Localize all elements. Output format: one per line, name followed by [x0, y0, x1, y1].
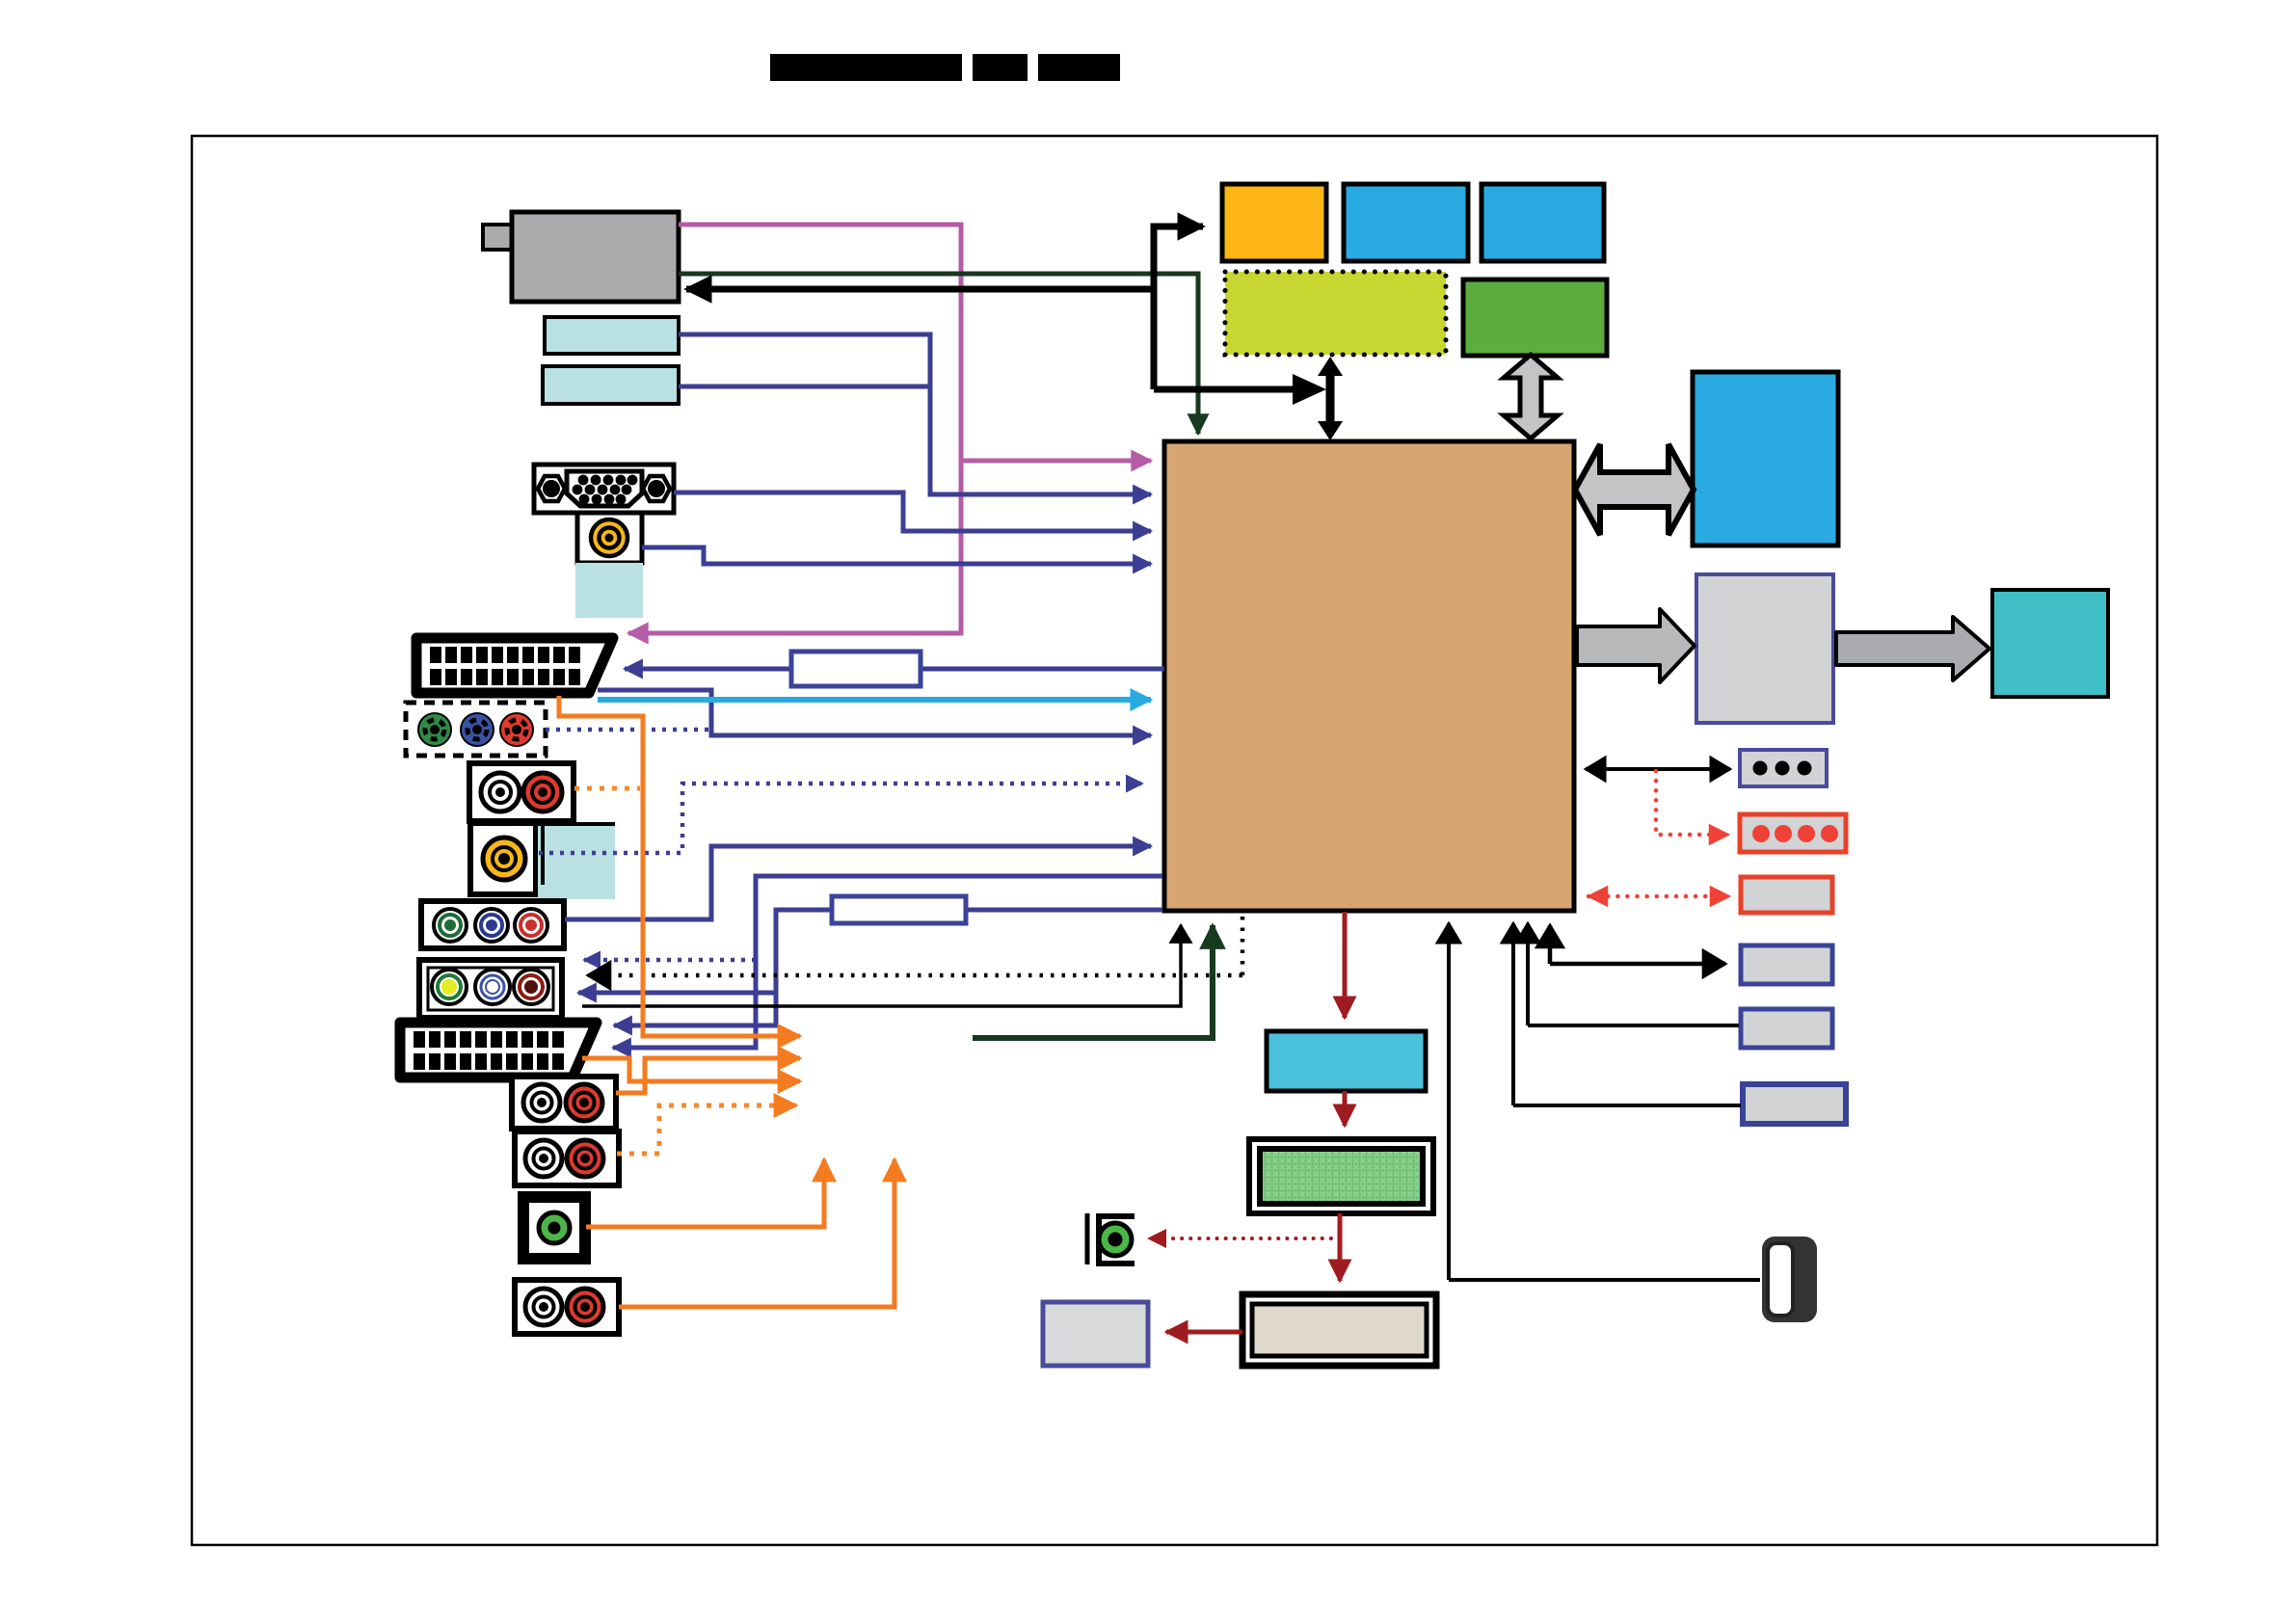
- wire orange dotted RCA pair1: [574, 786, 640, 791]
- CVBS yellow RCA under VGA: [577, 513, 642, 563]
- AV RCA trio 2 (Y-G/W/R): [419, 960, 562, 1018]
- wire dark green tuner to processor top: [679, 274, 1198, 434]
- main processor block (tan): [1164, 441, 1574, 911]
- wire navy net SCART2-processor 909: [613, 876, 1162, 1048]
- wire orange dotted RCA pair3 audio: [617, 1105, 796, 1154]
- wire dark red processor to turquoise: [1343, 912, 1348, 1018]
- blue-border box b: [1741, 1009, 1832, 1048]
- wire dark red dotted to green RCA icon: [1149, 1237, 1340, 1240]
- green RCA icon bottom middle: [1087, 1213, 1135, 1264]
- green hatched block: [1249, 1139, 1433, 1213]
- LED box (4 red dots): [1740, 814, 1846, 852]
- wire black dotted trio2 to processor bottom: [588, 916, 1242, 975]
- blue-border box a: [1741, 945, 1832, 984]
- IF box 2 (pale cyan): [543, 366, 679, 404]
- wire navy yellow RCA to processor: [642, 547, 1151, 564]
- inline box on SCART1 RGB line: [791, 652, 921, 686]
- gray-blue box bottom: [1043, 1302, 1148, 1366]
- VGA connector: [534, 465, 674, 513]
- wire navy dotted branch to trio2: [584, 958, 756, 963]
- IF box 1 (pale cyan): [545, 317, 679, 354]
- wire orange green-RCA up arrow: [586, 1159, 824, 1227]
- gray double arrow green box-processor: [1504, 355, 1558, 439]
- green RCA single (headphone): [523, 1197, 585, 1259]
- title redaction bar 1: [770, 54, 962, 81]
- wire red dotted to LED box: [1656, 771, 1728, 835]
- SCART 2 connector: [400, 1023, 597, 1078]
- wire navy SCART1 CVBS out to processor: [598, 690, 1151, 735]
- inline box on SCART2 line: [832, 896, 966, 923]
- wire black thin trio2 to processor bottom: [582, 925, 1181, 1006]
- turquoise block bottom: [1267, 1031, 1426, 1091]
- wire black elbow to remote: [1449, 923, 1760, 1280]
- title redaction bar 2: [973, 54, 1028, 81]
- RCA audio pair 1 (white/red): [469, 763, 574, 821]
- RCA audio pair 4 (bottom): [515, 1280, 619, 1334]
- blue block top 2: [1482, 184, 1604, 261]
- wire dark green bottom to processor: [973, 925, 1213, 1038]
- wire orange RCA pair4 up arrow: [619, 1159, 894, 1307]
- wire navy dotted component YPbPr: [546, 728, 710, 732]
- wire dark red turquoise to green hatched: [1343, 1091, 1348, 1126]
- teal block (display): [1992, 590, 2108, 697]
- component RCA trio 1 (G/B/R): [421, 901, 564, 948]
- gray big arrow processor to panel box: [1577, 609, 1695, 682]
- beige block (power supply): [1242, 1294, 1436, 1366]
- component YPbPr dashed box: [406, 703, 546, 756]
- gray block right (panel drive): [1696, 574, 1833, 723]
- RCA audio pair 3: [515, 1131, 619, 1185]
- wire navy dotted yellow RCA to processor: [539, 784, 1142, 853]
- wire navy net SCART2-processor 944: [578, 910, 1162, 1025]
- lime dotted block: [1225, 272, 1446, 355]
- wire orange RCA pair2 audio: [616, 1058, 800, 1093]
- wire orange SCART2 audio: [582, 1058, 800, 1081]
- wire black elbow to box a: [1550, 925, 1725, 964]
- blue block right (memory): [1693, 372, 1838, 545]
- wire magenta tuner to SCART1/processor: [628, 225, 1151, 633]
- yellow block top: [1222, 184, 1326, 261]
- CVBS yellow RCA (side AV): [470, 823, 536, 894]
- blue block top 1: [1344, 184, 1468, 261]
- wire dark red green hatched to beige: [1338, 1213, 1343, 1281]
- wire navy IF box1/2 to processor: [679, 334, 1151, 494]
- wire black elbow to box c: [1513, 923, 1741, 1105]
- gray big arrow panel box to display: [1836, 617, 1989, 680]
- SCART 1 connector: [416, 638, 613, 693]
- diagram border frame: [192, 136, 2157, 1545]
- wire orange SCART1 audio chain: [559, 696, 800, 1036]
- title redaction bar 3: [1038, 54, 1120, 81]
- wire navy trio1 to processor: [565, 846, 1151, 919]
- blue-border box c: [1743, 1084, 1846, 1124]
- wire navy VGA to processor: [674, 492, 1151, 531]
- wire navy processor to SCART1 (RGB): [625, 667, 1164, 672]
- remote control icon: [1762, 1237, 1817, 1322]
- wire black elbow to box b: [1528, 923, 1739, 1025]
- wire black tuner bus: [686, 226, 1326, 405]
- wire red dotted double arrow: [1589, 894, 1729, 899]
- pale cyan box beside yellow RCA: [538, 824, 615, 899]
- wire cyan SCART1 to processor: [598, 697, 1151, 703]
- tuner block: [483, 212, 679, 302]
- green block: [1463, 279, 1607, 356]
- red-border box: [1741, 877, 1832, 913]
- wire black double arrow lime-processor: [1318, 357, 1343, 440]
- gray double arrow processor-blue memory: [1575, 444, 1694, 535]
- wire dark red beige to gray-blue box: [1166, 1330, 1242, 1335]
- pale cyan box under RCA: [575, 563, 643, 618]
- RCA audio pair 2: [512, 1077, 616, 1129]
- wire black double arrow keypad: [1586, 767, 1730, 771]
- keypad box (3 black dots): [1740, 750, 1827, 786]
